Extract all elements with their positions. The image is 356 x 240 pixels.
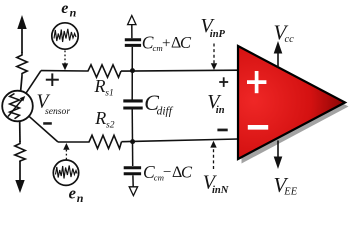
arrow: capacitor column bottom (hollow, down): [129, 187, 137, 196]
wire: sensor to bottom resistor: [19, 121, 21, 142]
resistor Rs2: [87, 135, 122, 148]
wire: dashed arrow from e_n top to + rail: [62, 51, 68, 71]
sensor V_sensor (variable resistor in circle): [2, 91, 33, 122]
label - (sensor negative terminal): [43, 122, 52, 125]
wire: dashed arrow from e_n bottom to - rail: [63, 143, 69, 160]
wire: left branch vertical (bottom segment): [19, 161, 21, 182]
svg-text:cc: cc: [285, 34, 295, 45]
wire: dashed arrow VinP to top rail: [211, 44, 217, 71]
wire: left branch into sensor: [21, 76, 22, 92]
wire: Vcc arrow: [274, 41, 283, 68]
capacitor Cdiff: [123, 101, 142, 108]
arrow: left branch top (up): [17, 15, 26, 29]
label - (op-amp inverting node): [217, 129, 227, 132]
svg-text:e: e: [69, 183, 76, 202]
svg-text:n: n: [77, 191, 84, 205]
op-amp U1 shadow: [242, 51, 349, 164]
wire: Vee arrow: [274, 141, 283, 170]
label + (sensor positive terminal): [46, 73, 59, 86]
wire: top rail Rs1 to op-amp: [121, 69, 238, 72]
svg-text:−: −: [163, 164, 171, 180]
op-amp U1: [238, 46, 345, 159]
wire: Cdiff to Ccm-dC: [131, 108, 134, 166]
junction: bottom rail / capacitor column: [130, 139, 135, 144]
svg-text:n: n: [70, 5, 77, 19]
wire: sensor top diagonal to node +: [26, 71, 41, 94]
resistor: bias bottom-left: [15, 141, 25, 162]
svg-text:s2: s2: [106, 121, 115, 131]
label + (op-amp non-inverting node): [219, 77, 228, 87]
svg-text:s1: s1: [105, 88, 113, 98]
label - (op-amp body): [248, 125, 268, 130]
svg-text:R: R: [94, 76, 106, 96]
junction: top rail / capacitor column: [130, 68, 135, 73]
wire: dashed arrow VinN to bottom rail: [210, 141, 216, 169]
wire: hollow arrow to Ccm+dC: [131, 25, 133, 39]
wire: bottom rail Rs2 to op-amp: [122, 139, 239, 142]
svg-text:C: C: [180, 33, 192, 52]
svg-text:R: R: [94, 108, 106, 128]
resistor Rs1: [86, 65, 121, 78]
arrow: left branch bottom (down): [15, 180, 24, 193]
svg-text:in: in: [216, 105, 225, 116]
capacitor Ccm+dC: [125, 40, 141, 46]
wire: bottom rail left of Rs2: [58, 141, 87, 143]
svg-text:diff: diff: [157, 106, 174, 118]
wire: Ccm-dC to hollow arrow: [132, 175, 134, 187]
svg-text:e: e: [61, 0, 68, 17]
svg-text:inP: inP: [210, 29, 226, 40]
arrow: capacitor column top (hollow, up): [128, 16, 136, 25]
noise source e_n (top): [52, 23, 78, 49]
wire: sensor bottom diagonal to - rail: [29, 116, 58, 142]
svg-text:sensor: sensor: [45, 106, 70, 117]
wire: Ccm+dC to Cdiff: [131, 47, 133, 100]
svg-text:C: C: [181, 162, 193, 181]
svg-text:inN: inN: [212, 185, 229, 196]
wire: top rail left of Rs1: [41, 70, 86, 72]
noise source e_n (bottom): [53, 160, 78, 185]
svg-text:EE: EE: [283, 186, 297, 197]
wire: left branch vertical (top segment): [21, 26, 23, 53]
label + (op-amp body): [247, 71, 266, 93]
resistor: bias top-left: [17, 52, 27, 76]
capacitor Ccm-dC: [124, 168, 141, 174]
svg-text:+: +: [162, 35, 170, 51]
